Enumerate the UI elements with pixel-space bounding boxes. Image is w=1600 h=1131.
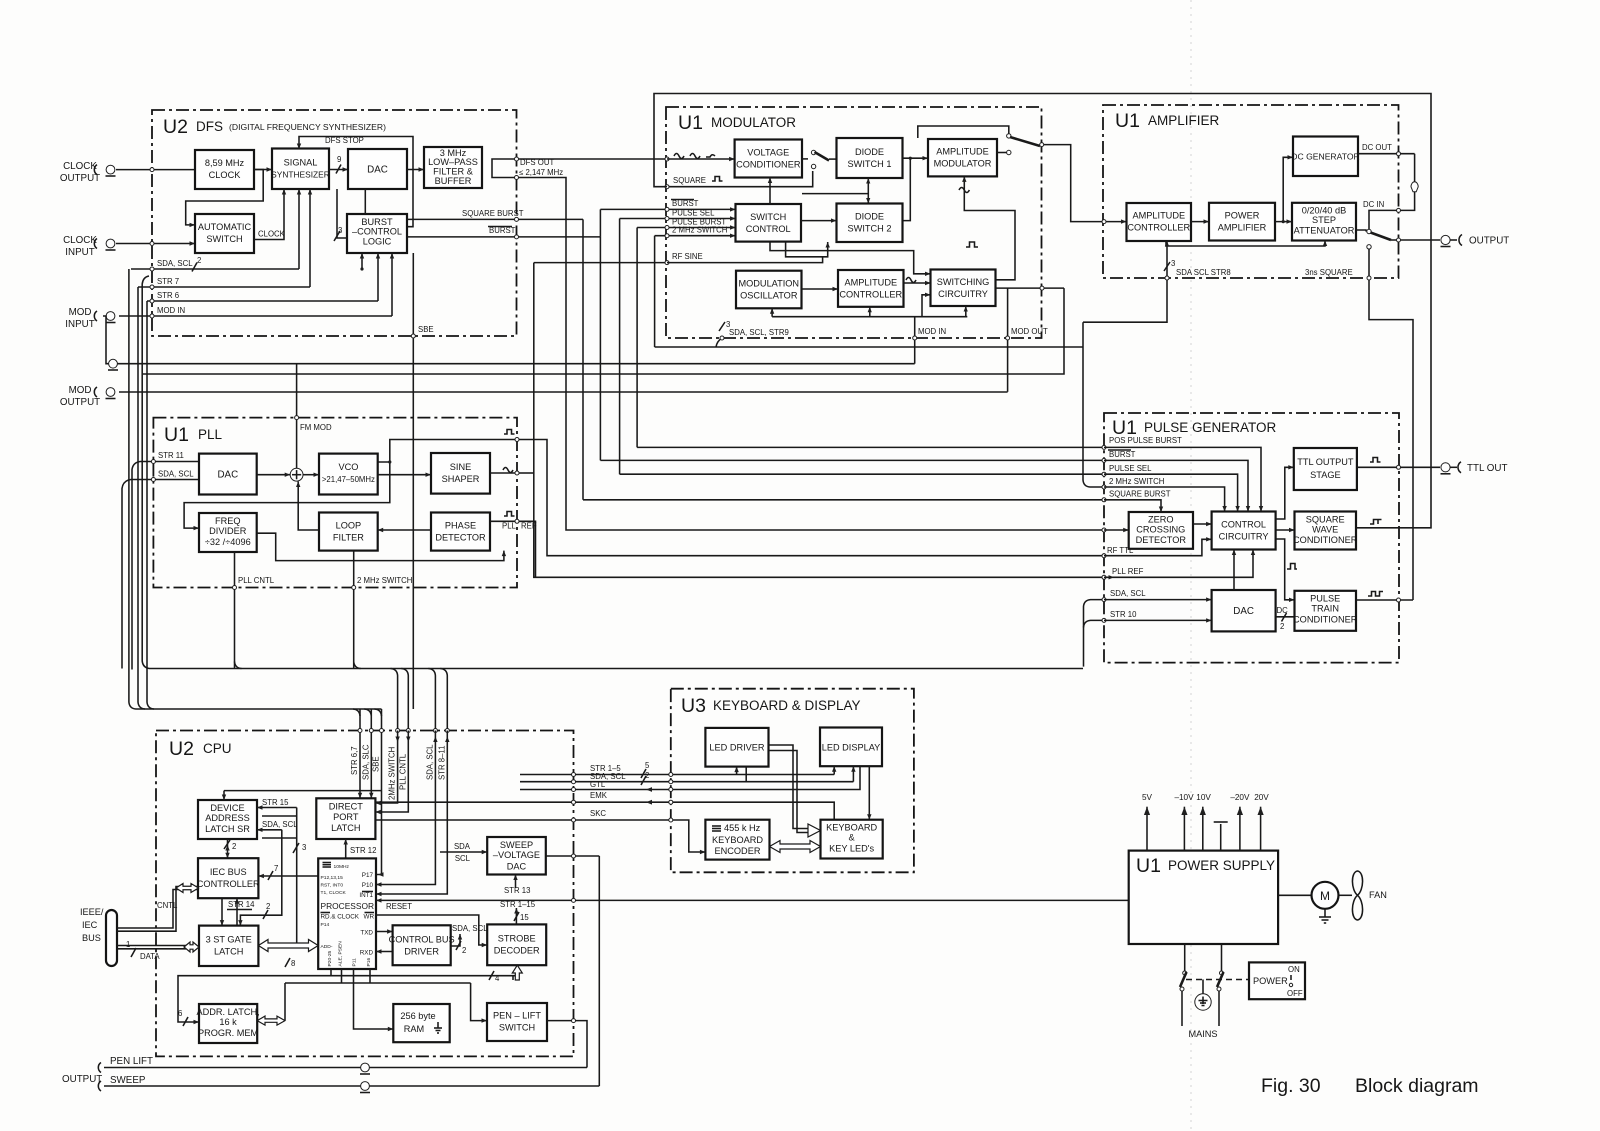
svg-text:(DIGITAL FREQUENCY SYNTHESIZ: (DIGITAL FREQUENCY SYNTHESIZER) — [229, 122, 386, 132]
block SIGNAL SYNTHESIZER — [272, 149, 329, 190]
wire DFS OUT branch down to zero crossing detector — [492, 170, 1104, 531]
svg-text:DAC: DAC — [507, 862, 527, 872]
svg-text:0/20/40 dB: 0/20/40 dB — [1302, 206, 1346, 216]
svg-text:OUTPUT: OUTPUT — [62, 1074, 102, 1085]
wire DC OUT — [1358, 153, 1415, 155]
wire WR to strobe decoder — [376, 915, 487, 945]
svg-text:U1: U1 — [1115, 110, 1140, 132]
svg-text:PULSE SEL: PULSE SEL — [1109, 464, 1152, 473]
bus LED driver to keyboard — [769, 745, 809, 829]
svg-text:SDA, SCL: SDA, SCL — [425, 744, 434, 780]
wire PLL sine to RF SINE and PLL REF — [519, 472, 534, 474]
small arrows below cpu edge — [395, 737, 399, 743]
wire VCO square out to PLL edge — [378, 440, 517, 463]
terminal TTL OUT — [1441, 463, 1450, 472]
svg-text:MOD: MOD — [69, 385, 92, 396]
module outline U1 MODULATOR — [666, 107, 1042, 338]
block 3ST GATE LATCH — [199, 926, 258, 966]
block AUTOMATIC SWITCH — [195, 214, 254, 253]
wire MOD OUT from switching circuitry — [996, 287, 1064, 289]
svg-text:PEN – LIFT: PEN – LIFT — [493, 1011, 541, 1021]
connector IEEE/IEC BUS — [106, 910, 117, 966]
wire switch output to amplifier — [1044, 145, 1104, 222]
svg-text:8: 8 — [291, 959, 295, 968]
wire amplitude controller to switching circuitry — [904, 282, 931, 284]
vertical SQUARE BURST down — [582, 219, 584, 499]
wire sine shaper out to PLL edge — [490, 472, 517, 474]
svg-text:455 k Hz: 455 k Hz — [724, 823, 761, 833]
svg-text:T1, CLOCK: T1, CLOCK — [321, 890, 347, 896]
svg-text:ENCODER: ENCODER — [715, 846, 761, 856]
svg-text:SYNTHESIZER: SYNTHESIZER — [271, 170, 330, 180]
svg-text:SCL: SCL — [455, 854, 471, 863]
svg-text:STR 7: STR 7 — [157, 277, 179, 286]
svg-text:CONDITIONER: CONDITIONER — [736, 160, 801, 170]
block SINE SHAPER — [431, 453, 490, 494]
wire 8,59MHz to signal synthesizer — [254, 169, 272, 171]
svg-text:PEN LIFT: PEN LIFT — [110, 1056, 153, 1067]
svg-text:SDA, SCL: SDA, SCL — [1110, 589, 1146, 598]
wire controller feedback under blocks — [1166, 241, 1325, 247]
svg-text:IEC: IEC — [82, 920, 98, 930]
bus arrow addr latch right — [257, 1016, 285, 1025]
svg-text:PLL: PLL — [198, 427, 223, 442]
svg-text:PORT: PORT — [333, 812, 359, 822]
wire POS PULSE BURST into control — [1104, 447, 1261, 511]
svg-text:VOLTAGE: VOLTAGE — [747, 148, 789, 158]
svg-text:CLOCK: CLOCK — [63, 235, 97, 246]
svg-text:LOW–PASS: LOW–PASS — [428, 157, 478, 167]
wire clock output line — [116, 169, 195, 171]
wire EMK line — [376, 802, 834, 820]
block LED DISPLAY — [820, 728, 882, 767]
svg-text:STEP: STEP — [1312, 215, 1336, 225]
wire freq divider to phase detector — [257, 533, 504, 560]
svg-text:CONTROLLER: CONTROLLER — [839, 290, 902, 300]
wire control to TTL output stage — [1276, 467, 1294, 519]
switch output selector — [1367, 229, 1371, 233]
svg-text:ATTENUATOR: ATTENUATOR — [1294, 226, 1355, 236]
svg-text:DC OUT: DC OUT — [1362, 143, 1392, 152]
wire motor to fan — [1339, 894, 1353, 896]
svg-text:3: 3 — [1171, 259, 1175, 268]
svg-text:SDA SCL STR8: SDA SCL STR8 — [1176, 268, 1231, 277]
svg-text:MODULATION: MODULATION — [739, 279, 800, 289]
svg-text:2: 2 — [197, 256, 201, 265]
svg-text:AMPLIFIER: AMPLIFIER — [1218, 223, 1267, 233]
svg-text:Block diagram: Block diagram — [1355, 1075, 1479, 1097]
svg-text:PLL CNTL: PLL CNTL — [238, 576, 275, 585]
wire POS PULSE BURST long — [637, 446, 1104, 448]
wire long spare run — [143, 288, 1064, 374]
block 256 byte RAM — [393, 1004, 449, 1042]
wire input into amplitude controller — [1104, 221, 1127, 223]
wire loop filter to summing junction — [298, 482, 319, 531]
outer loop wire square feedback — [654, 94, 1431, 528]
wire SDA,SCL 2 stub above driver — [451, 934, 460, 946]
wire SQUARE BURST into zero crossing detector — [1104, 500, 1161, 512]
svg-text:LED DRIVER: LED DRIVER — [709, 743, 765, 753]
svg-text:10V: 10V — [1196, 793, 1211, 802]
svg-text:AMPLITUDE: AMPLITUDE — [1133, 211, 1186, 221]
svg-text:PULSE: PULSE — [1310, 594, 1340, 604]
wire SDA,SCL input line — [131, 268, 299, 270]
wire SDA SCL into sweep dac — [440, 851, 487, 853]
wire summing junction to VCO — [303, 474, 319, 476]
svg-text:2 MHz SWITCH: 2 MHz SWITCH — [357, 576, 412, 585]
wire SDA,SCL input — [131, 479, 199, 481]
wire STR10 into DAC — [1104, 619, 1212, 621]
svg-text:SDA, SCL: SDA, SCL — [157, 259, 193, 268]
svg-text:INPUT: INPUT — [65, 247, 94, 258]
svg-text:2: 2 — [645, 771, 649, 780]
wire processor bottom bus — [285, 975, 517, 977]
wire STR67/SDA/SBE drops into CPU — [376, 709, 382, 875]
svg-text:DIODE: DIODE — [855, 147, 884, 157]
block DC GENERATOR — [1293, 137, 1358, 177]
svg-text:RESET: RESET — [386, 902, 412, 911]
svg-text:2 MHz SWITCH: 2 MHz SWITCH — [672, 226, 727, 235]
svg-text:PROCESSOR: PROCESSOR — [321, 901, 375, 911]
wire SDA,SCL line — [520, 781, 853, 783]
bus arrow latch to processor — [258, 940, 318, 952]
svg-text:U1: U1 — [164, 424, 189, 446]
wire 2MHz/PLLCNTL drops into direct port latch — [375, 731, 397, 804]
svg-text:SDA, SCL: SDA, SCL — [158, 470, 194, 479]
svg-text:P10: P10 — [362, 882, 374, 889]
riser STR6 to burst logic — [377, 253, 379, 301]
svg-text:STAGE: STAGE — [1310, 470, 1340, 480]
wire branch down to diode switch2 right — [903, 158, 911, 220]
svg-text:3 ST GATE: 3 ST GATE — [206, 935, 252, 945]
block ZERO CROSSING DETECTOR — [1129, 512, 1193, 549]
wire PLL CNTL down — [234, 552, 236, 669]
wire FM MOD into summing junction — [296, 364, 298, 469]
wire square to diode switch1 bottom — [802, 193, 868, 195]
node clock output on DFS edge — [150, 168, 154, 172]
svg-text:INPUT: INPUT — [65, 319, 94, 330]
svg-text:AMPLITUDE: AMPLITUDE — [936, 147, 989, 157]
svg-text:STR 1–15: STR 1–15 — [500, 900, 536, 909]
svg-text:MOD IN: MOD IN — [918, 327, 946, 336]
svg-text:PLL REF: PLL REF — [1112, 567, 1144, 576]
svg-text:P17: P17 — [362, 872, 374, 879]
bus arrow into strobe decoder bottom — [512, 965, 522, 980]
svg-text:SWITCH 1: SWITCH 1 — [848, 159, 892, 169]
svg-text:RXD: RXD — [360, 950, 374, 957]
wire SQUARE input from outer loop — [667, 171, 813, 187]
svg-text:SBE: SBE — [372, 756, 381, 772]
fold line — [1190, 0, 1192, 1131]
svg-text:DFS STOP: DFS STOP — [325, 136, 364, 145]
svg-text:POS PULSE BURST: POS PULSE BURST — [1109, 436, 1182, 445]
wire SDA,SCL / STR8-11 drops to processor — [376, 731, 435, 885]
svg-text:MOD: MOD — [69, 307, 92, 318]
svg-text:LED DISPLAY: LED DISPLAY — [822, 743, 881, 753]
svg-text:BURST: BURST — [361, 217, 393, 227]
vertical 2MHz SWITCH down to bus — [654, 236, 656, 347]
svg-text:LOGIC: LOGIC — [363, 237, 392, 247]
svg-text:ADD-: ADD- — [321, 944, 333, 950]
wire mod osc to amplitude controller — [802, 288, 839, 290]
block PULSE TRAIN CONDITIONER — [1295, 591, 1357, 631]
svg-text:P16: P16 — [366, 958, 372, 967]
svg-text:CONTROL: CONTROL — [746, 224, 791, 234]
svg-text:PHASE: PHASE — [445, 521, 476, 531]
wire SDA SCL STR8 at amplifier bottom — [1083, 241, 1167, 322]
svg-text:WAVE: WAVE — [1312, 525, 1338, 535]
svg-text:Fig. 30: Fig. 30 — [1261, 1075, 1321, 1097]
wire switching circuitry to amplitude modulator — [964, 176, 1015, 279]
wire into device address latch top — [224, 790, 382, 792]
svg-text:5V: 5V — [1142, 793, 1153, 802]
module outline U1 AMPLIFIER — [1103, 105, 1399, 278]
block STROBE DECODER — [487, 924, 546, 965]
svg-text:PLL: PLL — [502, 522, 517, 531]
svg-text:U2: U2 — [169, 738, 194, 760]
svg-text:SDA, SCL, STR9: SDA, SCL, STR9 — [729, 328, 789, 337]
svg-text:DAC: DAC — [367, 165, 388, 176]
wire RESET line to power supply — [376, 899, 1129, 901]
wire STR14 — [221, 898, 223, 925]
svg-text:SIGNAL: SIGNAL — [284, 158, 318, 168]
svg-text:CONTROLLER: CONTROLLER — [1127, 223, 1190, 233]
svg-text:CONTROL BUS: CONTROL BUS — [389, 935, 455, 945]
svg-text:FAN: FAN — [1369, 890, 1387, 900]
svg-text:CIRCUITRY: CIRCUITRY — [938, 289, 988, 299]
svg-text:CONDITIONER: CONDITIONER — [1293, 535, 1358, 545]
wire bypass over amplitude modulator — [918, 126, 1009, 138]
svg-text:LATCH: LATCH — [331, 823, 360, 833]
svg-text:BUFFER: BUFFER — [435, 176, 472, 186]
wire PULSE SEL into switch control — [620, 218, 736, 220]
svg-text:STR 6,7: STR 6,7 — [350, 746, 359, 775]
wire STR13 — [515, 875, 517, 889]
svg-text:VCO: VCO — [338, 462, 358, 472]
svg-text:STR 11: STR 11 — [158, 451, 184, 460]
svg-text:PLL CNTL: PLL CNTL — [398, 753, 407, 790]
svg-text:9: 9 — [337, 155, 341, 164]
svg-text:÷32 /÷4096: ÷32 /÷4096 — [205, 537, 251, 547]
block BURST-CONTROL LOGIC — [347, 214, 407, 253]
svg-text:WR: WR — [364, 914, 375, 921]
motor M — [1312, 882, 1339, 909]
svg-text:CLOCK: CLOCK — [258, 230, 286, 239]
wire PULSE SEL long — [620, 473, 1104, 475]
svg-text:>21,47–50MHz: >21,47–50MHz — [322, 475, 375, 484]
wire BURST output (inverted) — [407, 236, 600, 238]
block TTL OUTPUT STAGE — [1294, 448, 1357, 490]
svg-text:KEY LED's: KEY LED's — [829, 844, 874, 854]
module outline U2 CPU — [156, 731, 574, 1057]
svg-text:SWEEP: SWEEP — [500, 840, 533, 850]
wire STR11 input — [140, 461, 199, 463]
svg-text:IEEE/: IEEE/ — [80, 907, 104, 917]
wire SQUARE BURST long — [583, 499, 1104, 501]
wire branch up to DC generator — [1283, 157, 1293, 221]
block DIRECT PORT LATCH — [316, 798, 375, 839]
module outline U3 KEYBOARD & DISPLAY — [671, 689, 914, 873]
wire detector to control circuitry — [1193, 523, 1212, 525]
wire sweep output to right — [546, 855, 600, 857]
switch S1 after voltage conditioner — [802, 158, 808, 160]
svg-text:FILTER: FILTER — [333, 533, 364, 543]
svg-text:MODULATOR: MODULATOR — [934, 159, 992, 169]
svg-text:SDA, SCL: SDA, SCL — [452, 924, 488, 933]
svg-text:STR 14: STR 14 — [228, 900, 255, 909]
svg-text:SDA, SLC: SDA, SLC — [361, 744, 370, 780]
svg-text:SWITCH 2: SWITCH 2 — [848, 224, 892, 234]
wire STR11/SDA risers on left — [132, 462, 140, 670]
svg-text:DC IN: DC IN — [1363, 200, 1384, 209]
wire DC IN — [1369, 210, 1399, 229]
wire PLL REF output — [490, 520, 517, 522]
svg-text:DIODE: DIODE — [855, 212, 884, 222]
svg-text:3: 3 — [302, 843, 306, 852]
wire bottom feed bus into osc/controller/circuitry — [772, 316, 967, 318]
svg-text:SQUARE: SQUARE — [1306, 515, 1345, 525]
svg-text:DIVIDER: DIVIDER — [209, 526, 247, 536]
svg-text:3ns SQUARE: 3ns SQUARE — [1305, 268, 1353, 277]
svg-text:TXD: TXD — [360, 930, 373, 937]
wire 3ns SQUARE riser — [1369, 249, 1413, 600]
svg-text:DC GENERATOR: DC GENERATOR — [1291, 152, 1359, 162]
svg-text:KEYBOARD & DISPLAY: KEYBOARD & DISPLAY — [713, 698, 861, 713]
svg-text:–20V: –20V — [1230, 793, 1250, 802]
wire control to pulse train conditioner — [1276, 539, 1295, 600]
wire IEEE data bus double line — [117, 945, 186, 947]
block POWER AMPLIFIER — [1209, 203, 1275, 241]
wire attenuator to switch — [1356, 230, 1366, 232]
wire 2MHz SWITCH into control — [1104, 487, 1225, 512]
wire diode switch1 to amplitude modulator — [903, 157, 929, 159]
wire SKC line — [376, 820, 705, 852]
wire mains line 2 — [1221, 944, 1223, 971]
block POWER ON/OFF — [1249, 962, 1305, 999]
wire PULSE BURST into switch control — [637, 227, 735, 229]
summing junction — [290, 468, 303, 481]
wire MOD OUTPUT long line — [119, 391, 1008, 393]
wire 2MHz SWITCH bus across — [655, 346, 1083, 348]
svg-text:ADDRESS: ADDRESS — [205, 813, 249, 823]
wire power amp to attenuator — [1275, 221, 1292, 223]
block 8,59 MHz CLOCK — [195, 150, 254, 189]
wire CNTL double line riser — [117, 890, 198, 929]
block AMPLITUDE MODULATOR — [928, 139, 997, 176]
svg-text:INT1: INT1 — [359, 892, 373, 899]
wire DAC to filter — [407, 169, 424, 171]
svg-text:AMPLITUDE: AMPLITUDE — [845, 278, 898, 288]
svg-text:2: 2 — [462, 946, 466, 955]
svg-text:CPU: CPU — [203, 741, 232, 756]
svg-text:U1: U1 — [1136, 855, 1161, 877]
block DAC (pulse gen) — [1212, 590, 1276, 631]
wire SDA,SCL stub to gate latch — [257, 829, 282, 831]
wire phase detector to loop filter — [378, 529, 431, 531]
wire DFS OUT sine to modulator — [492, 159, 667, 170]
svg-text:MODULATOR: MODULATOR — [711, 115, 796, 130]
wire STR7 input line — [138, 286, 310, 288]
svg-text:GTL: GTL — [590, 780, 606, 789]
svg-text:5: 5 — [645, 761, 650, 770]
block FREQ DIVIDER — [199, 513, 257, 552]
wire amplitude controller to power amplifier — [1191, 221, 1209, 223]
wire sweep down — [598, 856, 600, 1086]
module outline U1 PULSE GENERATOR — [1104, 413, 1399, 663]
block KEYBOARD ENCODER — [705, 820, 769, 860]
wire bundle bottom run — [142, 276, 1083, 669]
svg-text:POWER: POWER — [1253, 976, 1288, 986]
wire DAC to pulse train DC 2 — [1276, 616, 1295, 618]
wire MOD IN riser — [914, 317, 916, 364]
block SWEEP-VOLTAGE DAC — [487, 837, 546, 875]
wire synthesizer to DAC with 9 slash — [329, 169, 348, 171]
block SWITCH CONTROL — [736, 204, 802, 242]
module outline U1 PLL — [153, 418, 517, 588]
block CONTROL BUS DRIVER — [393, 925, 451, 965]
svg-text:STR 12: STR 12 — [350, 846, 376, 855]
wire into voltage conditioner — [667, 158, 735, 160]
block DIODE SWITCH 2 — [837, 204, 903, 243]
wire BURST into switch control — [600, 208, 735, 210]
svg-text:20V: 20V — [1254, 793, 1269, 802]
svg-text:SWITCH: SWITCH — [206, 234, 242, 244]
wire STR1-5 line — [520, 774, 834, 776]
svg-text:CNTL: CNTL — [157, 901, 178, 910]
svg-text:SQUARE BURST: SQUARE BURST — [1109, 490, 1171, 499]
riser MOD IN to burst logic — [391, 253, 393, 316]
svg-text:DAC: DAC — [1233, 606, 1254, 617]
riser SDA to burst logic — [361, 253, 363, 269]
svg-text:2: 2 — [1280, 622, 1284, 631]
svg-text:DRIVER: DRIVER — [404, 947, 439, 957]
wire 8 marker — [285, 958, 290, 967]
voltage outputs — [1146, 807, 1148, 851]
svg-text:MOD OUT: MOD OUT — [1011, 327, 1048, 336]
wire 2 link to IEC bus controller — [227, 839, 229, 858]
svg-text:SWEEP: SWEEP — [110, 1075, 146, 1086]
svg-text:STR 10: STR 10 — [1110, 610, 1137, 619]
svg-text:DAC: DAC — [217, 470, 238, 481]
svg-text:U3: U3 — [681, 695, 706, 717]
wire PULSE SEL into control — [1104, 474, 1238, 511]
wire CLOCK from automatic switch to synthesizer — [254, 189, 284, 240]
block POWER SUPPLY — [1129, 851, 1278, 944]
svg-text:8,59 MHz: 8,59 MHz — [205, 158, 245, 168]
svg-text:EMK: EMK — [590, 791, 608, 800]
wire RF TTL into control left — [1104, 539, 1212, 555]
svg-text:DATA: DATA — [140, 952, 160, 961]
svg-text:RD.& CLOCK: RD.& CLOCK — [321, 914, 360, 921]
svg-text:OUTPUT: OUTPUT — [60, 397, 100, 408]
svg-text:PROGR. MEM: PROGR. MEM — [198, 1028, 258, 1038]
svg-text:STR 6: STR 6 — [157, 291, 179, 300]
svg-text:P12,13,15: P12,13,15 — [321, 875, 344, 881]
wire switch control bottom runs — [770, 242, 931, 274]
svg-text:CONTROL: CONTROL — [1221, 520, 1266, 530]
svg-text:–VOLTAGE: –VOLTAGE — [493, 850, 540, 860]
wire DAC bottom to burst logic top — [364, 189, 366, 214]
svg-text:STR 15: STR 15 — [262, 798, 289, 807]
svg-text:SDA, SCL: SDA, SCL — [262, 820, 298, 829]
svg-text:&: & — [849, 833, 855, 843]
svg-text:RAM: RAM — [404, 1024, 424, 1034]
block SQUARE WAVE CONDITIONER — [1295, 512, 1357, 550]
svg-text:LOOP: LOOP — [336, 521, 362, 531]
svg-text:SHAPER: SHAPER — [442, 474, 480, 484]
wire 2MHz SWITCH down — [353, 551, 355, 669]
svg-text:ON: ON — [1288, 965, 1300, 974]
